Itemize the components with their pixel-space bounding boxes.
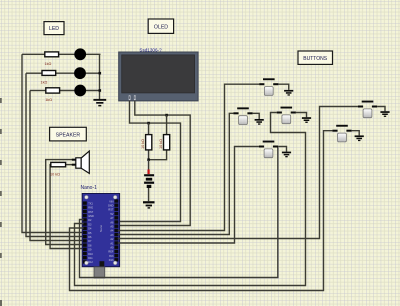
label box OLED bbox=[148, 19, 173, 33]
pins left column bbox=[83, 201, 87, 263]
ground (button1) bbox=[284, 90, 293, 96]
junction LED row2 bbox=[99, 72, 102, 75]
svg-text:LED: LED bbox=[49, 26, 59, 32]
svg-text:10 kΩ: 10 kΩ bbox=[159, 139, 163, 149]
ground (button2) bbox=[255, 119, 264, 125]
wire LED row3 right bbox=[60, 90, 100, 92]
reset button (black square) bbox=[100, 261, 105, 266]
wire LED row3 left bbox=[30, 90, 46, 92]
svg-text:10 kΩ: 10 kΩ bbox=[50, 173, 60, 177]
junction pullup R5 top bbox=[165, 114, 168, 117]
wire button2 to ground bbox=[253, 113, 260, 119]
resistor R8 (speaker) bbox=[51, 162, 66, 166]
junction pullup R4 top bbox=[147, 122, 150, 125]
sheet border tick marks (left edge) bbox=[0, 98, 2, 306]
pushbutton 4 bbox=[358, 101, 377, 118]
svg-text:REF: REF bbox=[108, 251, 113, 254]
wire button1 to ground bbox=[278, 84, 288, 90]
svg-text:VIN: VIN bbox=[109, 200, 113, 203]
svg-text:1kΩ: 1kΩ bbox=[45, 98, 52, 102]
pushbutton 1 bbox=[259, 78, 278, 95]
pushbutton 6 bbox=[259, 141, 278, 158]
label box SPEAKER bbox=[50, 127, 87, 141]
ground (LED common) bbox=[93, 99, 106, 107]
LED D2 bbox=[74, 67, 86, 79]
junction LED row3 bbox=[99, 89, 102, 92]
ground (button3) bbox=[302, 117, 311, 123]
wire button6 right contact loop under nano to left pin (net D2) bbox=[80, 148, 278, 278]
wire button5 loop under nano to left pin bbox=[70, 131, 333, 291]
wire button3 to ground bbox=[296, 113, 307, 118]
battery BAT1 bbox=[144, 160, 154, 188]
wire R5 leads bbox=[166, 115, 168, 135]
pin labels right bbox=[108, 200, 114, 262]
ground (button6) bbox=[282, 152, 291, 158]
wire resistor to speaker bbox=[66, 164, 76, 166]
OLED display U1 bbox=[119, 52, 198, 101]
wire button3 loop under nano to left pin bbox=[75, 113, 306, 286]
pushbutton 2 bbox=[233, 107, 252, 124]
wire LED1 to nano: vertical bbox=[22, 54, 84, 232]
wire button4 to nano (long) bbox=[118, 107, 358, 239]
svg-text:5V: 5V bbox=[110, 213, 113, 216]
svg-text:GND: GND bbox=[88, 215, 94, 218]
label box LED bbox=[44, 22, 64, 35]
svg-text:1kΩ: 1kΩ bbox=[41, 81, 48, 85]
ground (battery) bbox=[143, 201, 155, 208]
ground (button5) bbox=[355, 135, 364, 141]
wire LED row2 right bbox=[55, 72, 100, 74]
wire battery to ground bbox=[148, 188, 150, 201]
resistor R3 bbox=[46, 88, 60, 93]
wire LED row1 right bbox=[59, 53, 101, 55]
wire R4 leads bbox=[148, 123, 150, 135]
mounting holes bbox=[85, 195, 117, 264]
LED D1 bbox=[74, 48, 86, 60]
svg-text:3V3: 3V3 bbox=[109, 255, 114, 258]
wire button1 to nano (left) bbox=[118, 84, 260, 230]
resistor R4 (pullup) vertical bbox=[146, 135, 152, 150]
LED D3 bbox=[74, 85, 86, 97]
wire LED row2 left bbox=[26, 72, 42, 74]
resistor R5 (pullup) vertical bbox=[164, 135, 170, 150]
wire OLED SCL bbox=[118, 101, 191, 226]
label box BUTTONS bbox=[298, 51, 333, 64]
junction battery top bbox=[147, 158, 150, 161]
svg-text:RX0: RX0 bbox=[88, 207, 93, 210]
wire LED2 to nano bbox=[26, 73, 84, 236]
wire LED row1 left bbox=[22, 53, 45, 55]
svg-text:D11: D11 bbox=[88, 257, 93, 260]
svg-text:1kΩ: 1kΩ bbox=[45, 62, 52, 66]
wire button4 to ground bbox=[377, 107, 385, 112]
svg-text:10 kΩ: 10 kΩ bbox=[141, 139, 145, 149]
wire OLED SDA bbox=[118, 101, 181, 222]
svg-text:D12: D12 bbox=[88, 261, 93, 264]
svg-text:BUTTONS: BUTTONS bbox=[303, 56, 327, 62]
pushbutton 3 bbox=[277, 107, 296, 124]
wire button6 to nano bbox=[118, 147, 259, 244]
svg-text:RST: RST bbox=[88, 211, 93, 214]
resistor R2 bbox=[42, 71, 56, 76]
OLED pin labels bbox=[129, 95, 136, 100]
wire button2 to nano bbox=[118, 113, 234, 234]
pushbutton 5 bbox=[332, 125, 351, 142]
wire button5 to ground bbox=[352, 131, 360, 136]
svg-text:Nano-1: Nano-1 bbox=[81, 185, 98, 191]
wire LED3 to nano bbox=[30, 91, 84, 241]
svg-text:SPEAKER: SPEAKER bbox=[56, 132, 81, 138]
pin labels left bbox=[88, 202, 94, 264]
svg-text:GND: GND bbox=[108, 205, 114, 208]
svg-text:TX1: TX1 bbox=[88, 202, 93, 205]
speaker LS1 bbox=[72, 151, 90, 173]
svg-text:OLED: OLED bbox=[154, 25, 168, 31]
wire LED common vertical to ground bbox=[99, 54, 101, 99]
svg-text:D13: D13 bbox=[109, 259, 114, 262]
svg-text:RST: RST bbox=[108, 209, 113, 212]
wire speaker top to nano bbox=[46, 160, 84, 245]
resistor R1 bbox=[45, 52, 59, 57]
Arduino Nano U2 board bbox=[82, 194, 119, 267]
wire speaker resistor to nano bbox=[50, 165, 84, 249]
ground (button4) bbox=[380, 111, 389, 117]
pins right column bbox=[114, 199, 118, 261]
USB connector bbox=[94, 267, 105, 278]
svg-text:D10: D10 bbox=[88, 253, 93, 256]
wire button6 to ground bbox=[278, 147, 286, 152]
svg-text:Nano: Nano bbox=[99, 224, 103, 232]
